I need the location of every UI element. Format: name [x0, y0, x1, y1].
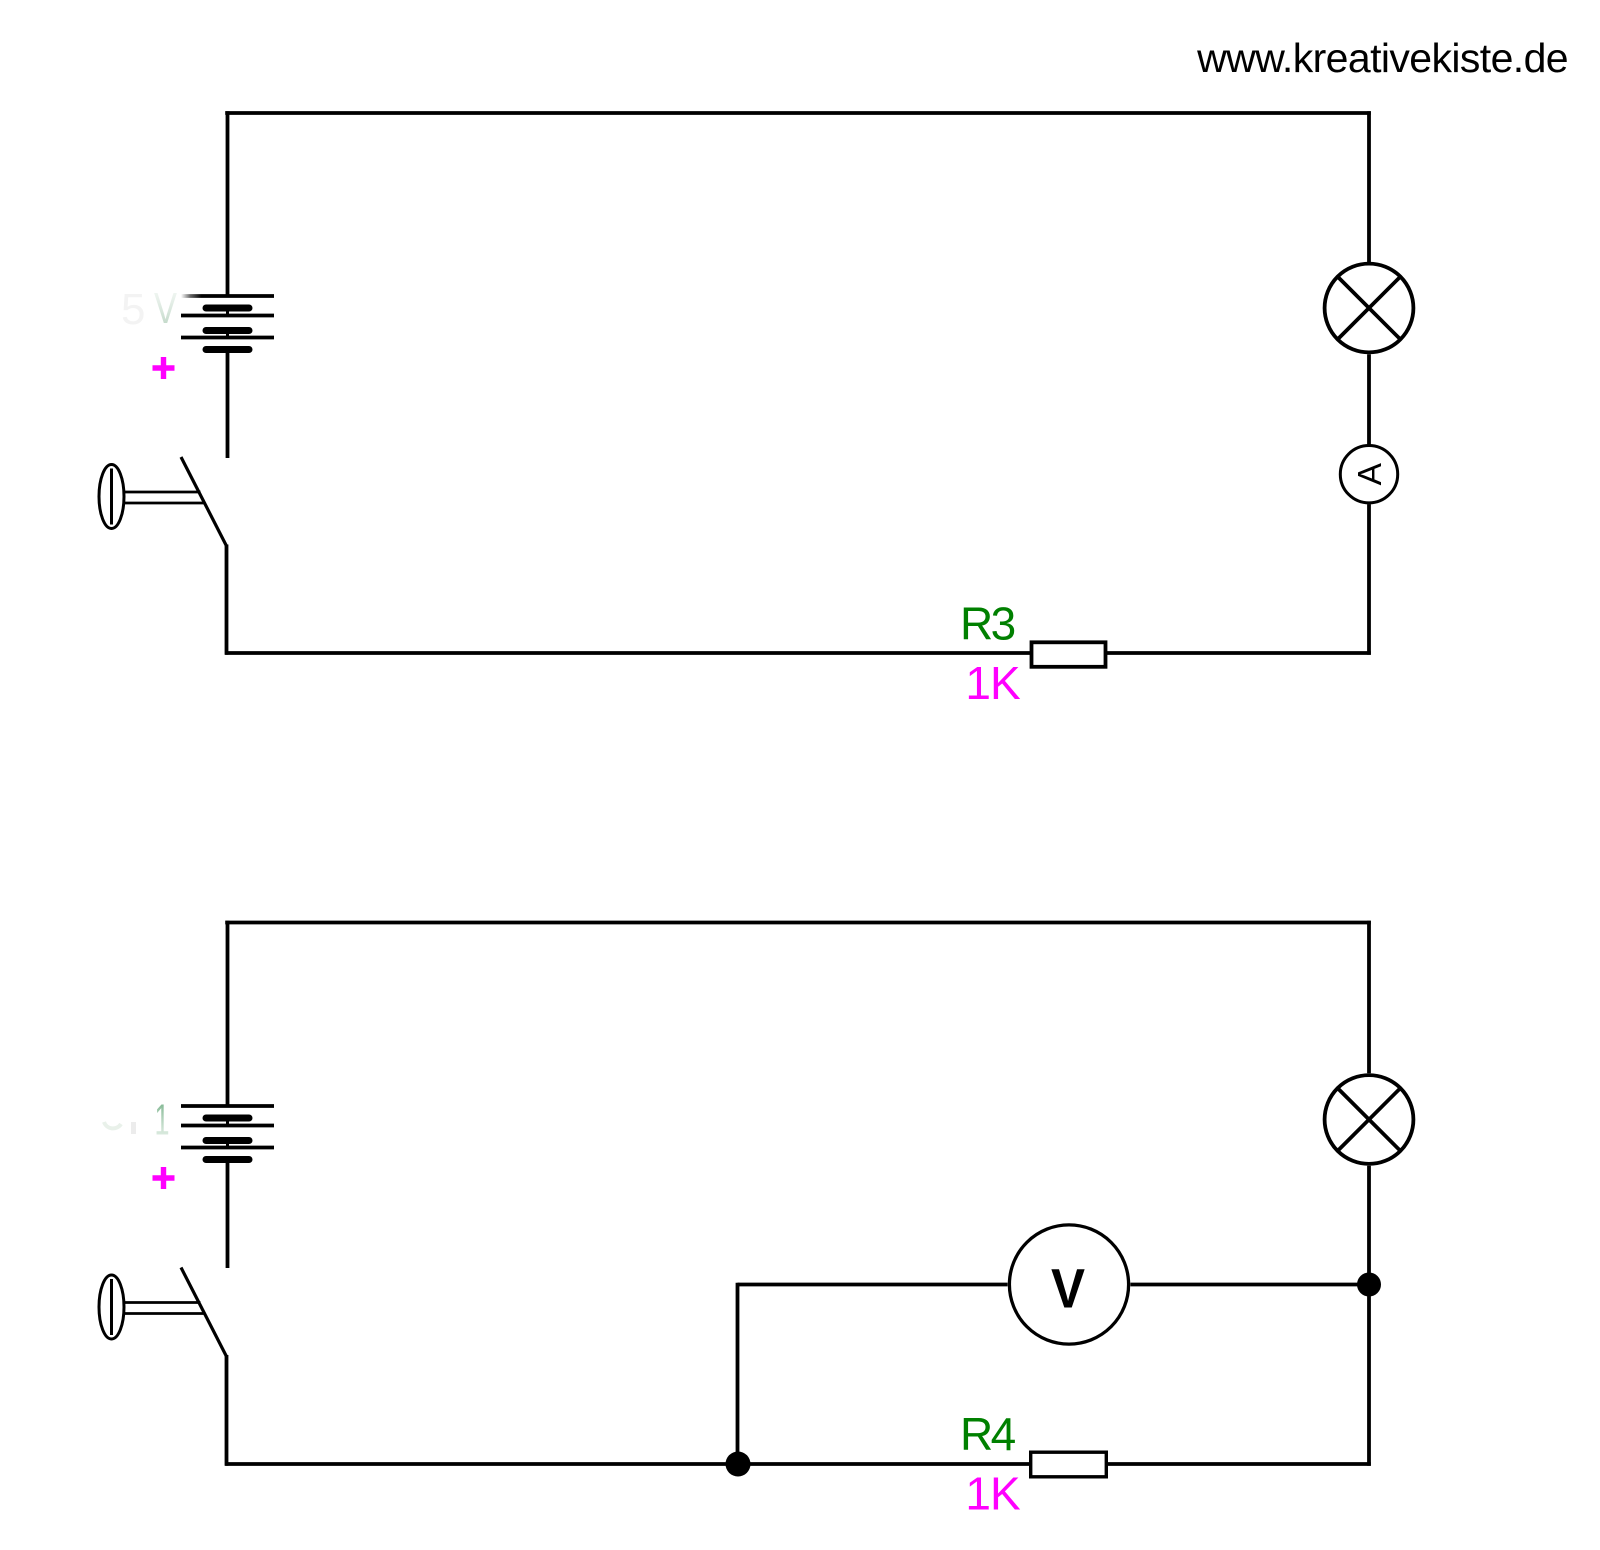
svg-text:www.kreativekiste.de: www.kreativekiste.de [1196, 35, 1568, 81]
switch S2 (pushbutton) [99, 1268, 227, 1357]
battery BT1 [181, 296, 274, 350]
svg-text:1K: 1K [965, 657, 1021, 709]
wire voltmeter right to node (circuit 2) [1130, 1283, 1369, 1287]
wire top horizontal (circuit 2) [225, 921, 1371, 925]
node junction dot right (circuit 2) [1357, 1273, 1381, 1297]
wire right vertical top (circuit 2) [1367, 921, 1371, 1074]
voltmeter V1 [1009, 1225, 1128, 1344]
wire battery bottom to switch (circuit 2) [226, 1160, 230, 1269]
battery plus polarity label (circuit 1) [153, 357, 175, 379]
wire left vertical battery top (circuit 1) [226, 111, 230, 296]
svg-text:A: A [1352, 462, 1389, 485]
wire switch to bottom rail (circuit 1) [225, 545, 229, 655]
wire bottom horizontal (circuit 2) [225, 1462, 1371, 1466]
svg-text:1: 1 [155, 1096, 170, 1145]
wire lamp to ammeter (circuit 1) [1367, 354, 1371, 444]
wire top horizontal (circuit 1) [225, 111, 1371, 115]
lamp X1 [1325, 264, 1414, 353]
svg-text:V: V [154, 284, 178, 333]
battery plus polarity label (circuit 2) [153, 1167, 175, 1189]
svg-text:R4: R4 [960, 1408, 1016, 1460]
svg-text:5: 5 [121, 285, 145, 334]
ammeter A1 [1340, 446, 1397, 503]
resistor R3 body [1032, 642, 1106, 667]
wire battery bottom to switch (circuit 1) [226, 350, 230, 459]
wire right vertical top (circuit 1) [1367, 111, 1371, 262]
wire bottom horizontal (circuit 1) [225, 651, 1371, 655]
wire ammeter to bottom rail (circuit 1) [1367, 504, 1371, 655]
faint erased voltage label watermark (circuit 1) [121, 284, 178, 334]
faint erased voltage label watermark (circuit 2) [104, 1096, 170, 1145]
wire lamp to bottom rail through node (circuit 2) [1367, 1166, 1371, 1466]
svg-text:1K: 1K [965, 1468, 1021, 1520]
lamp X2 [1325, 1075, 1414, 1164]
wire left vertical battery top (circuit 2) [226, 921, 230, 1106]
resistor R4 body [1031, 1452, 1107, 1477]
wire voltmeter left horizontal (circuit 2) [738, 1283, 1008, 1287]
wire switch to bottom rail (circuit 2) [225, 1355, 229, 1466]
wire voltmeter branch vertical down (circuit 2) [736, 1283, 740, 1464]
switch S1 (pushbutton) [99, 457, 227, 546]
battery BT2 [181, 1106, 274, 1160]
svg-text:V: V [1051, 1257, 1085, 1320]
svg-text:R3: R3 [960, 598, 1015, 650]
node junction dot bottom (circuit 2) [726, 1452, 751, 1477]
